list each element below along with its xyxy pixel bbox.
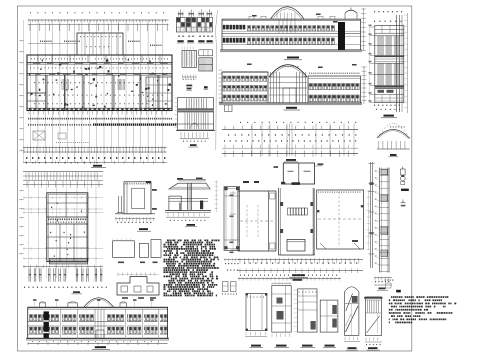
plan bottom dimension numbers [26, 157, 165, 159]
wall section bottom dims [374, 277, 392, 279]
plan north wing [77, 33, 123, 55]
south elevation roof bumps [39, 303, 45, 307]
south elevation floor lines [28, 321, 168, 323]
detail D1 outline [246, 294, 267, 331]
wing plan body outer wall [47, 193, 88, 262]
roof plan left wing double east wall [268, 191, 270, 251]
wing plan bottom protruding bar [49, 258, 87, 264]
small partial plan outline [117, 277, 159, 296]
wing plan vertical grid lines [28, 172, 30, 279]
storefront left ticks [175, 97, 178, 99]
plan bottom dimension line with ticks [23, 147, 166, 149]
plan bottom dense dimension text [28, 118, 172, 120]
plan title label [93, 165, 102, 167]
storefront elevation detail [178, 98, 214, 130]
plan vertical grid lines [30, 20, 32, 162]
detail D2 top dim [272, 282, 291, 284]
section right dimension column [363, 66, 365, 104]
notes text lines [389, 296, 456, 323]
wall section hatched cell 3 [381, 250, 388, 256]
elevation 1 centre arch glazing [278, 20, 280, 34]
section right block text row [309, 73, 359, 74]
small partial plan top dims [118, 273, 155, 276]
small partial plan labels [122, 297, 128, 299]
stair detail title [384, 115, 395, 117]
section detail md1 inner panel [132, 188, 145, 209]
column divider break line [216, 10, 218, 150]
stair detail bottom numbers [374, 105, 400, 106]
roof plan right wing outline [317, 190, 364, 249]
section detail md1 side labels [152, 189, 157, 191]
south elevation base [26, 337, 169, 339]
elevation 1 title [287, 57, 299, 59]
plan stair block cluster [146, 77, 172, 109]
slender column detail [370, 162, 372, 268]
canopy floor lines [169, 197, 208, 199]
stair detail dark band 2 [375, 55, 404, 57]
wing plan footing detail clusters [28, 268, 30, 281]
canopy right dim column [215, 180, 217, 212]
window detail W3 [200, 10, 202, 18]
canopy dims below [168, 213, 204, 217]
arc detail hanger ticks [379, 141, 405, 149]
plan classroom partition walls [45, 75, 47, 111]
detail D4 interior dark blocks [332, 305, 337, 314]
canopy base [165, 210, 211, 212]
elevation 1 base lines [220, 49, 362, 51]
wing plan left dim column dashes [20, 190, 24, 191]
storefront title label [190, 144, 197, 146]
elevation 1 right tower dome [345, 10, 357, 13]
roof plan left wing centre dashes [240, 220, 274, 222]
wing plan top number row [26, 162, 97, 163]
tiny marks right of details row [385, 280, 394, 281]
elevation 1 body outline [222, 19, 361, 50]
window detail dimension dashes row [178, 36, 180, 37]
arc detail title [390, 154, 397, 156]
plan below-wall tick annotations [29, 111, 166, 114]
section title [286, 107, 297, 109]
elevation standalone level marks [252, 15, 257, 17]
roof-plan strip number row mid [228, 134, 356, 135]
arc detail top labels [390, 126, 405, 127]
detail D3 left tick column [294, 289, 298, 291]
detail D1 corner dots [246, 293, 248, 295]
small partial plan inner rooms [121, 286, 128, 292]
south elevation eaves [28, 306, 168, 308]
south elevation window row 1 [30, 315, 33, 321]
bottom row top dim strip [238, 278, 341, 280]
plan top dimension ticks [29, 19, 166, 22]
south elevation body outline [28, 307, 168, 338]
roof plan middle hatch boxes row [288, 208, 291, 215]
window detail W1 [180, 10, 182, 18]
wing plan title label [73, 291, 80, 293]
roof-plan strip line 2 [222, 147, 358, 149]
plan below-wall small details [33, 131, 45, 140]
stair detail lower dark cells [378, 90, 385, 93]
roof-plan strip tall verticals [251, 124, 253, 157]
detail D2 outline [272, 286, 291, 333]
small labels under details [186, 85, 192, 87]
plan corridor wall lower [27, 73, 172, 75]
stair detail header numbers [374, 11, 402, 12]
detail D3 outline [298, 289, 317, 332]
plan room furniture and door marks [142, 92, 144, 93]
penthouse left level mark [274, 166, 279, 168]
small window stack details [223, 282, 229, 292]
plan annotation right of wing [128, 41, 140, 42]
section base line [219, 102, 362, 104]
detail D3 label [302, 345, 313, 347]
axis bubble A1 [401, 200, 406, 203]
stair detail right dim line [407, 13, 409, 113]
wing plan crossing dim lines [23, 197, 103, 199]
md1 title [139, 228, 148, 230]
notes header [396, 290, 401, 293]
south elevation entrance black column [44, 311, 49, 338]
storefront label [187, 88, 192, 90]
frame detail corner blocks [224, 187, 227, 190]
wing plan lower number rows [24, 287, 107, 288]
south elevation dimension line [28, 343, 168, 345]
canopy labels [177, 178, 183, 180]
elevation 1 left wing dark windows row 1 [223, 25, 225, 29]
stair detail long verticals [396, 15, 398, 112]
elevation 1 sill lines [222, 30, 361, 32]
canopy top lines [178, 178, 206, 180]
detail D6 dims and label [366, 337, 377, 340]
wing plan internal walls [47, 202, 88, 204]
detail D1 interior [250, 294, 252, 331]
section detail md1 outline [124, 182, 151, 214]
elevation 1 roof arch [271, 7, 305, 19]
small rect detail r2 [139, 243, 148, 257]
section centre interior door [283, 88, 296, 103]
storefront bottom dimension row [181, 132, 208, 138]
roof plan left dim ticks [232, 191, 234, 251]
window detail W2 [190, 10, 192, 18]
arc detail curve [377, 129, 410, 138]
detail D5 hatch band [352, 296, 358, 303]
plan bottom wall window cells [29, 109, 170, 111]
south elevation arch [84, 298, 114, 308]
plan top grid-number row [30, 12, 164, 13]
frame detail outline [224, 187, 240, 251]
frame detail bottom dims [224, 259, 240, 261]
roof plan bottom dimension rows [238, 259, 363, 261]
roof plan right wing top text [318, 192, 360, 193]
roof plan right outside dim column [368, 190, 370, 250]
roof plan title [292, 274, 305, 276]
roof plan right wing side marks [317, 210, 319, 212]
elevation 1 parapet blocks [249, 16, 254, 19]
specification dense text block [164, 240, 220, 297]
detail D2 dims and label [272, 334, 290, 337]
roof plan left wing labels [243, 181, 249, 183]
south elevation pier gaps [60, 314, 63, 339]
elevation 1 window band row 1 [248, 26, 251, 31]
roof-plan strip top number row [240, 122, 356, 123]
hatched window detail B [199, 50, 213, 56]
window detail name bars [178, 40, 184, 42]
plan main body outer wall [27, 55, 172, 111]
stair detail top cells [375, 29, 404, 31]
small rect labels [118, 262, 124, 264]
wall section hatched cell 1 [381, 195, 388, 201]
canopy left block [169, 196, 181, 211]
plan stair hatches [61, 79, 63, 90]
stair detail left dim ticks [370, 26, 375, 28]
stair detail hatch panel 1 [378, 36, 384, 56]
elevation 1 eaves line [222, 18, 361, 20]
detail D6 interior window grill [366, 300, 368, 313]
roof plan middle side marks [281, 202, 284, 206]
stair detail dark band 3 [375, 85, 404, 87]
plan corridor wall fill segments [33, 62, 40, 63]
plan annotation left of wing [28, 43, 77, 45]
detail D6 stair diagonal [367, 316, 380, 333]
detail D3 interior [298, 295, 317, 297]
roof plan right wing centre dashes [318, 218, 361, 220]
elevation 1 entrance black column [338, 22, 345, 50]
detail D6 outline [365, 297, 381, 336]
stair detail frame [375, 25, 404, 102]
detail A dimension row [182, 76, 196, 78]
finial ornament detail [401, 169, 406, 175]
wing plan top dim band [23, 171, 103, 173]
wall section rungs [380, 168, 390, 170]
plan left wing internal walls [27, 92, 46, 94]
section right block window rows [309, 84, 313, 90]
plan room annotation text [31, 58, 86, 59]
arc detail tick marks along curve [377, 123, 410, 138]
penthouse right dim label [315, 165, 322, 167]
section left block window rows [223, 76, 226, 81]
wing plan bottom dim rows [23, 266, 103, 268]
roof-plan strip title [286, 159, 296, 161]
section detail md1 base [115, 213, 155, 215]
plan left dimension column [23, 20, 25, 163]
wall section hatched cell 2 [381, 227, 388, 235]
wing plan door specks [84, 232, 85, 233]
frame detail mid lines [224, 195, 240, 197]
wing plan middle dark band [48, 219, 86, 221]
plan top dimension line 1 [28, 19, 169, 21]
plan corridor wall upper [27, 62, 172, 64]
detail D4 outline [320, 300, 338, 332]
south elevation window row 2 [30, 327, 33, 333]
south elevation centre glazing [94, 309, 96, 338]
south elevation title [95, 346, 106, 348]
roof plan middle section walls [278, 188, 280, 255]
roof plan bottom wall middle [279, 254, 315, 256]
section detail md1 left post [118, 196, 120, 213]
mullion window detail A [182, 51, 197, 68]
small detail right of storefront [225, 105, 233, 112]
elevation 1 floor line [222, 33, 361, 35]
canopy roof slab [169, 183, 210, 189]
detail D5 interior lines [351, 304, 353, 335]
plan bottom axis line [23, 161, 166, 163]
md1 dimension rows [115, 217, 155, 219]
detail D5 portal outline [344, 287, 359, 336]
detail D5 stair diagonals [346, 306, 359, 332]
section right block outline [308, 76, 361, 103]
small rect detail r3 [151, 240, 161, 258]
small rect detail r1 [113, 241, 135, 258]
section centre hall cut lines [270, 72, 272, 103]
canopy title [187, 224, 196, 226]
roof plan left wing outline [238, 190, 276, 192]
wall section ladder rails [379, 168, 381, 273]
section centre arch [269, 65, 307, 77]
elevation 1 left wing dark windows row 2 [223, 38, 225, 43]
window detail W4 [208, 10, 210, 18]
elevation 1 window band row 2 [248, 38, 251, 45]
south elevation flag marks [33, 299, 37, 301]
detail D4 label [325, 345, 335, 347]
wall section left tick labels [377, 171, 380, 173]
detail D2 interior stair blocks [277, 298, 283, 304]
canopy posts [187, 183, 189, 210]
roof-plan strip line 1 [222, 128, 358, 130]
section left dimension ticks [219, 69, 223, 71]
wall section hatched cell top [381, 170, 388, 175]
roof plan middle lower box [287, 240, 305, 252]
section detail md1 top hatch [125, 183, 150, 184]
section left block outline [222, 72, 268, 103]
penthouse two-cell box [283, 163, 314, 184]
detail D1 dims and label [246, 332, 265, 335]
sheet border frame [18, 6, 412, 351]
roof plan right wing corner diagonals [320, 243, 326, 249]
stair detail hatch panel 2 [378, 63, 384, 85]
detail D5 dims and label [345, 337, 358, 340]
scale label detail mark [401, 189, 409, 191]
elevation 1 right dimension column [363, 8, 365, 51]
